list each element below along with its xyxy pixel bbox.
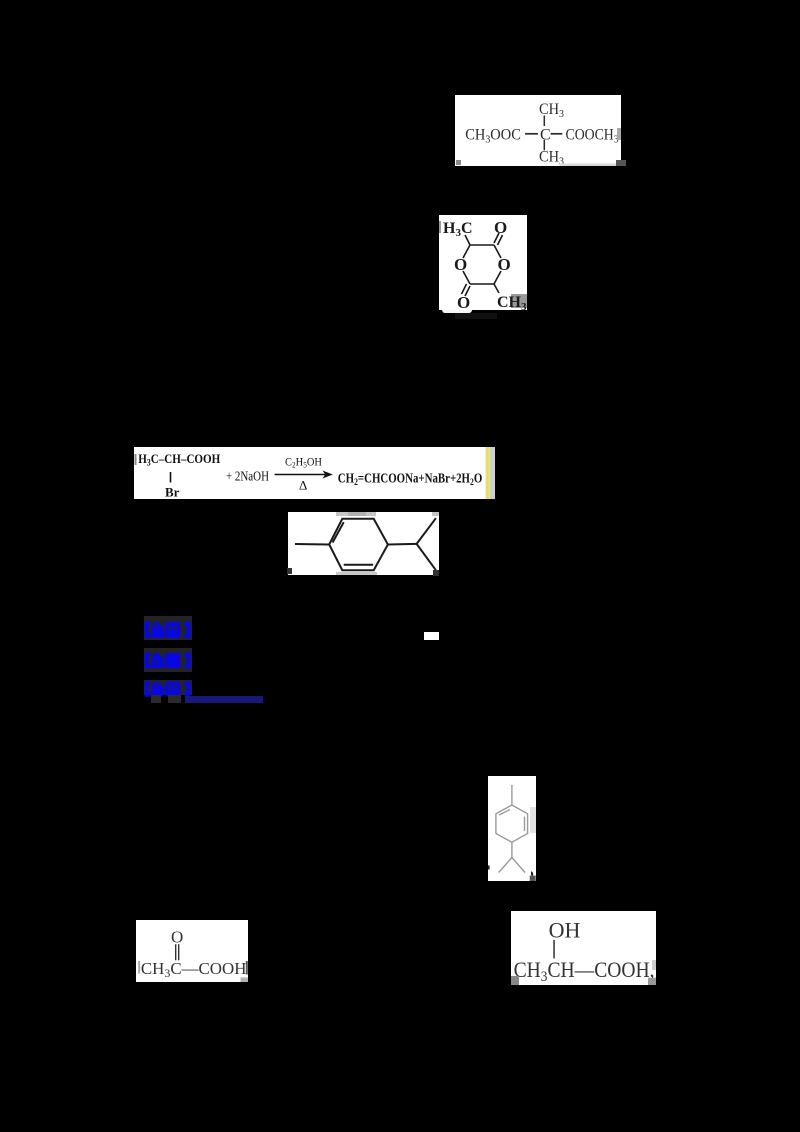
white dash	[424, 632, 439, 640]
artifact smudge top	[336, 512, 376, 516]
wire isopropyl up	[417, 518, 436, 544]
svg-text:OH: OH	[549, 918, 581, 943]
wire H3C-C1	[465, 235, 470, 245]
svg-text:O: O	[494, 218, 507, 237]
wire bond top	[543, 116, 545, 127]
svg-text:CH3CH—COOH,: CH3CH—COOH,	[514, 957, 655, 985]
artifact grey band right	[652, 960, 656, 970]
artifact grey tail 2	[168, 695, 181, 703]
artifact grey strip bottom	[560, 164, 621, 167]
wire O6-C1	[463, 245, 470, 258]
artifact white bump below box2	[442, 310, 472, 313]
svg-text:O: O	[454, 255, 467, 274]
wire double bond left	[333, 522, 344, 542]
artifact comma	[531, 871, 533, 875]
value label CH3 bottom	[539, 149, 564, 168]
wire C2=O double bond	[494, 233, 499, 243]
svg-text:C: C	[540, 127, 551, 144]
svg-text:H3C–CH–COOH: H3C–CH–COOH	[138, 451, 220, 468]
wire C5-O6	[463, 271, 470, 284]
artifact right bar	[246, 961, 248, 975]
artifact handle box4 bottom-right	[433, 570, 439, 576]
svg-text:O: O	[498, 255, 511, 274]
wire double bond right	[524, 817, 526, 832]
hexagon ring	[329, 519, 388, 570]
artifact grey square right	[648, 978, 656, 985]
blue row 2	[144, 648, 192, 672]
svg-text:CH3OOC: CH3OOC	[465, 127, 521, 146]
wire C4-CH3	[494, 284, 499, 293]
artifact grey square	[241, 978, 250, 983]
artifact grey notch left edge	[135, 454, 137, 465]
wire O3-C4	[494, 271, 501, 284]
artifact grey corner	[530, 876, 536, 881]
wire double bond	[175, 944, 176, 960]
artifact grey square	[511, 294, 527, 308]
artifact grey tail 1	[151, 695, 161, 703]
highlight yellow strip	[486, 447, 490, 499]
artifact handle box1 bottom-left	[456, 160, 461, 165]
svg-text:Δ: Δ	[299, 478, 307, 493]
blue row 1	[144, 616, 192, 640]
wire isopropyl left	[499, 858, 512, 873]
blue row 3	[144, 680, 192, 695]
box5: vertical diene ring	[488, 776, 536, 881]
wire isopropyl right	[512, 858, 525, 873]
wire C4-C5	[470, 283, 494, 285]
artifact grey bar right	[617, 128, 621, 140]
svg-text:H3C: H3C	[443, 220, 473, 239]
artifact faint smudge below box2	[455, 313, 497, 319]
svg-text:O: O	[457, 293, 470, 310]
svg-text:CH3: CH3	[539, 149, 564, 167]
svg-text:Br: Br	[165, 485, 180, 500]
wire C2-O3	[494, 245, 501, 258]
wire isopropyl stem	[388, 543, 417, 546]
artifact left bar	[138, 961, 140, 974]
box6: pyruvic acid	[136, 920, 248, 982]
box4: methyl-isopropyl cyclohexadiene	[288, 512, 439, 575]
wire bond to Br	[170, 472, 172, 483]
artifact handle box4 bottom-left	[287, 568, 292, 574]
wire C5=O double bond	[465, 286, 470, 296]
artifact handle box1 bottom-right	[616, 160, 626, 166]
artifact grey band right edge	[530, 807, 536, 833]
wire bond	[553, 940, 555, 959]
svg-text:CH3: CH3	[539, 101, 564, 120]
svg-text:+ 2NaOH: + 2NaOH	[226, 470, 269, 485]
artifact grey strip right	[490, 447, 495, 499]
wire methyl top	[511, 785, 513, 805]
box1: dimethyl dimethylmalonate structure	[455, 95, 621, 166]
artifact tick left edge	[488, 866, 490, 870]
wire double bond bottom	[344, 564, 373, 566]
box2: lactide ring	[439, 215, 527, 310]
svg-text:O: O	[171, 928, 183, 947]
arrow	[275, 474, 330, 476]
wire stem	[511, 842, 513, 857]
value label main row	[465, 127, 619, 146]
svg-text:CH3C—COOH: CH3C—COOH	[141, 959, 247, 980]
underline navy	[185, 696, 263, 703]
wire C1-C2	[470, 244, 494, 246]
wire isopropyl down	[417, 544, 436, 570]
artifact grey notch left edge	[439, 221, 441, 233]
value label CH3 top	[539, 101, 564, 120]
wire bond bottom	[543, 140, 545, 151]
box7: lactic acid	[511, 911, 656, 985]
wire double bond top-left	[499, 810, 510, 816]
artifact grey bottom-left	[511, 976, 519, 985]
artifact smudge bottom	[336, 572, 377, 576]
box3: reaction equation	[134, 447, 495, 499]
reactant H3C-CH-COOH	[138, 451, 220, 468]
svg-text:COOCH3: COOCH3	[566, 127, 619, 146]
svg-text:CH2=CHCOONa+NaBr+2H2O: CH2=CHCOONa+NaBr+2H2O	[338, 471, 483, 489]
wire methyl	[295, 543, 329, 546]
hexagon ring	[496, 805, 528, 842]
svg-text:C2H5OH: C2H5OH	[285, 457, 322, 470]
